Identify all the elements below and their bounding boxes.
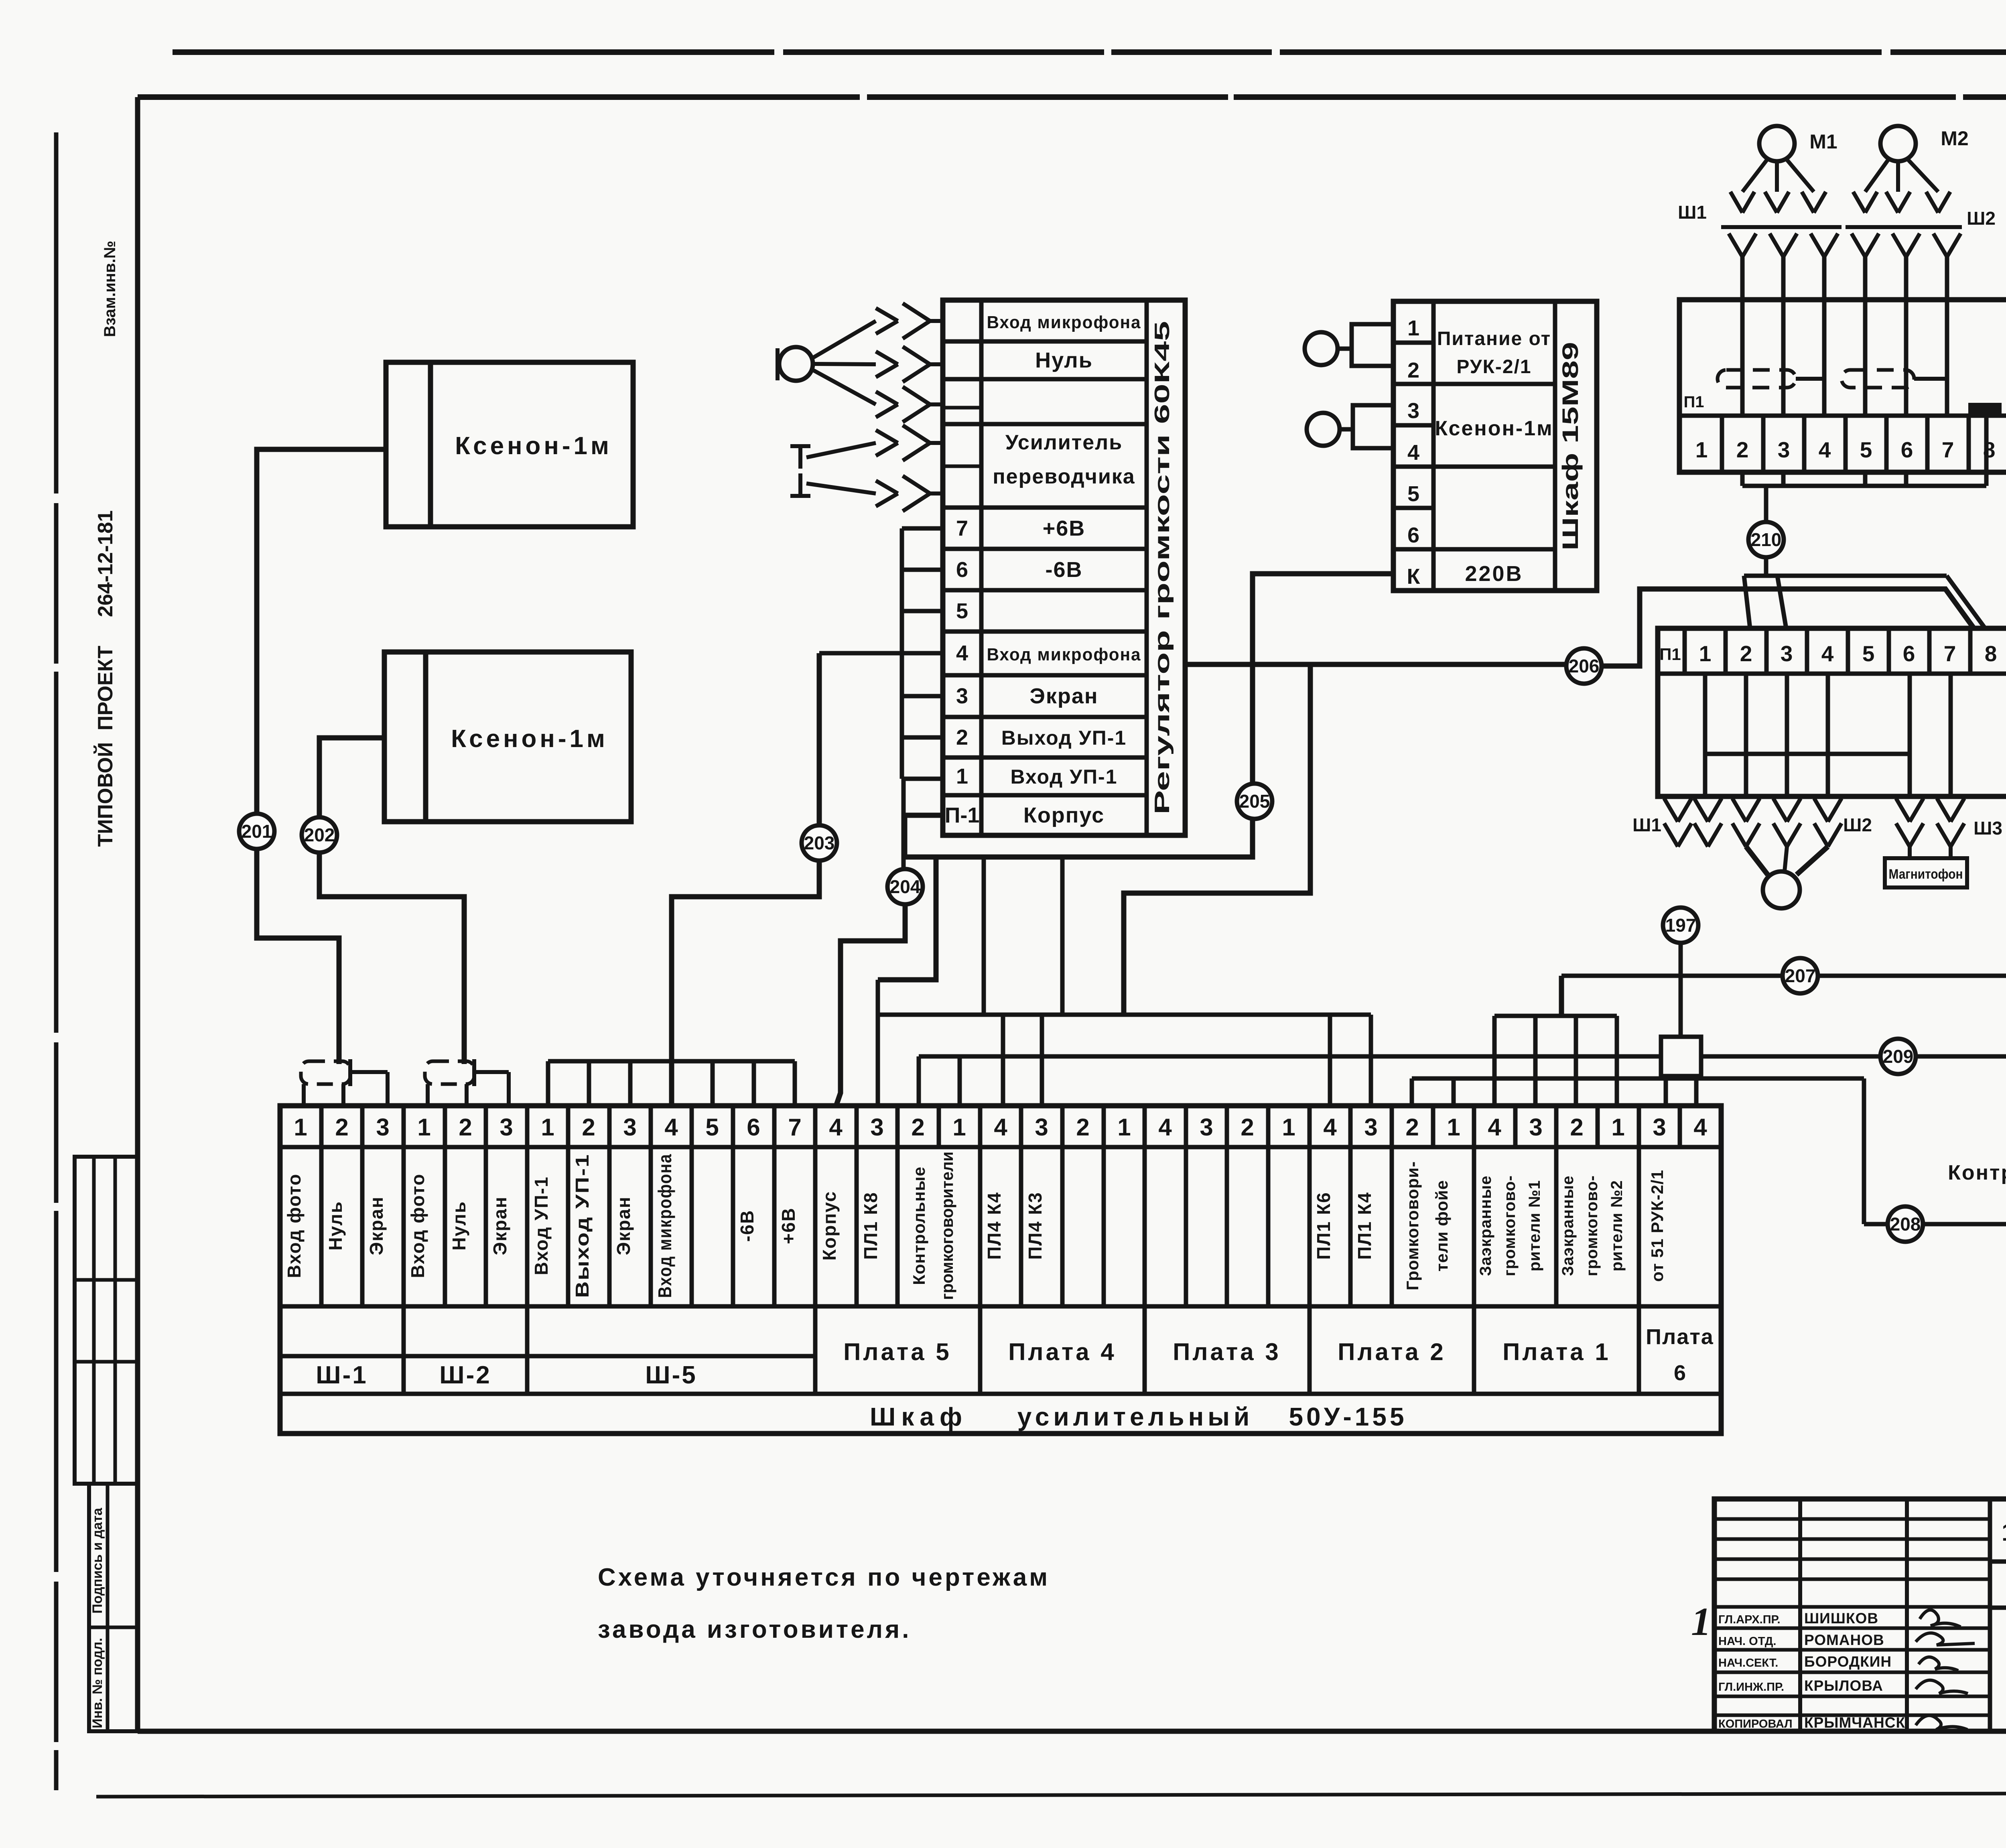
- svg-text:6: 6: [747, 1114, 760, 1141]
- title block project name: [1990, 1606, 2006, 1610]
- svg-text:1: 1: [541, 1114, 554, 1141]
- svg-text:3: 3: [1035, 1114, 1048, 1141]
- svg-text:3: 3: [956, 684, 968, 708]
- svg-text:2: 2: [1241, 1114, 1254, 1141]
- box Ксенон-1м #1: [386, 362, 633, 527]
- svg-text:Плата 5: Плата 5: [843, 1338, 951, 1365]
- wire 205: Корпус row to Шкаф 15М89 К row: [905, 574, 1393, 857]
- sheet outer left dashed edge: [54, 132, 59, 1790]
- cable marker circle 208: [1888, 1206, 1923, 1242]
- svg-text:П1: П1: [1659, 645, 1681, 664]
- svg-text:от 51 РУК-2/1: от 51 РУК-2/1: [1648, 1170, 1667, 1282]
- svg-text:3: 3: [1364, 1114, 1377, 1141]
- frame left line: [135, 97, 140, 1731]
- wire comb left of Регулятор rows 7..1: [900, 528, 904, 779]
- svg-text:1: 1: [1611, 1114, 1624, 1141]
- svg-text:НАЧ. ОТД.: НАЧ. ОТД.: [1718, 1635, 1776, 1648]
- svg-text:П1: П1: [1684, 393, 1704, 411]
- svg-text:Инв. № подл.: Инв. № подл.: [90, 1638, 105, 1728]
- svg-text:Вход УП-1: Вход УП-1: [1010, 766, 1117, 788]
- cable marker circle 210: [1748, 522, 1784, 557]
- title block signature grid: [1988, 1499, 1992, 1731]
- mic plugs and label Ш1: [1730, 192, 1742, 213]
- svg-text:громкогово-: громкогово-: [1501, 1175, 1519, 1276]
- svg-text:2: 2: [956, 725, 968, 749]
- svg-text:1: 1: [417, 1114, 430, 1141]
- svg-text:6: 6: [1903, 641, 1915, 666]
- svg-text:4: 4: [1693, 1114, 1707, 1141]
- svg-text:ШИШКОВ: ШИШКОВ: [1804, 1610, 1878, 1627]
- bus C (y2688) to 208: [1412, 1076, 1864, 1081]
- svg-text:ПЛ1 К6: ПЛ1 К6: [1313, 1192, 1334, 1259]
- svg-text:Ш3: Ш3: [1974, 818, 2002, 839]
- svg-text:БОРОДКИН: БОРОДКИН: [1804, 1653, 1892, 1670]
- svg-text:1: 1: [1691, 1599, 1711, 1644]
- bus A (y2529) linking plate pins: [878, 1013, 1371, 1017]
- svg-text:220В: 220В: [1465, 562, 1523, 586]
- wire 197 drop to junction box: [1679, 943, 1683, 1037]
- mic plugs and label Ш2: [1853, 192, 1865, 213]
- svg-text:2: 2: [1736, 437, 1749, 462]
- svg-text:2: 2: [1076, 1114, 1089, 1141]
- svg-text:Заэкранные: Заэкранные: [1559, 1176, 1577, 1276]
- svg-text:Заэкранные: Заэкранные: [1477, 1176, 1494, 1276]
- cable marker circle 205: [1237, 784, 1272, 819]
- svg-text:Плата 3: Плата 3: [1173, 1338, 1281, 1365]
- cable marker circle 203: [802, 825, 837, 861]
- svg-text:2: 2: [582, 1114, 595, 1141]
- svg-text:ПЛ4 К4: ПЛ4 К4: [984, 1192, 1005, 1259]
- svg-text:3: 3: [1407, 399, 1419, 423]
- svg-text:РУК-2/1: РУК-2/1: [1456, 356, 1531, 378]
- svg-text:Ксенон-1м: Ксенон-1м: [455, 432, 612, 460]
- svg-text:202: 202: [304, 824, 335, 845]
- cable marker circle 201: [239, 814, 274, 849]
- svg-text:Вход фото: Вход фото: [407, 1173, 428, 1278]
- svg-text:Вход микрофона: Вход микрофона: [987, 645, 1141, 664]
- svg-text:Усилитель: Усилитель: [1005, 431, 1123, 454]
- mic socket forks and leads into ВК-209 pins 2-7: [1729, 234, 1742, 257]
- lamp plug above Ш-1 pins 1-2: [301, 1061, 350, 1084]
- svg-text:К: К: [1407, 565, 1421, 589]
- indicator lamp 2 of Шкаф 15М89: [1307, 413, 1340, 446]
- box Коробка включения микрофонов ВК-209: [1679, 300, 2006, 472]
- svg-text:П-1: П-1: [945, 803, 980, 827]
- svg-text:205: 205: [1239, 791, 1270, 812]
- svg-text:Регулятор громкости 60К45: Регулятор громкости 60К45: [1151, 321, 1174, 814]
- svg-text:Шкаф: Шкаф: [870, 1402, 968, 1431]
- svg-text:Плата: Плата: [1646, 1325, 1714, 1349]
- svg-text:громкогово-: громкогово-: [1583, 1175, 1601, 1276]
- left margin stamp box (подпись и дата / инв № подл): [89, 1484, 138, 1731]
- cable sleeve symbol 1 inside ВК-209: [1718, 370, 1796, 388]
- svg-text:210: 210: [1751, 529, 1782, 550]
- svg-text:Ш-2: Ш-2: [439, 1361, 491, 1389]
- svg-text:ГЛ.ИНЖ.ПР.: ГЛ.ИНЖ.ПР.: [1718, 1681, 1784, 1694]
- svg-text:7: 7: [1944, 641, 1956, 666]
- svg-text:1: 1: [1699, 641, 1712, 666]
- svg-text:Питание от: Питание от: [1437, 328, 1551, 349]
- svg-text:7: 7: [788, 1114, 801, 1141]
- left margin mini table: [75, 1157, 138, 1484]
- svg-text:М1: М1: [1809, 130, 1837, 153]
- svg-text:6: 6: [956, 558, 968, 582]
- svg-text:3: 3: [1529, 1114, 1542, 1141]
- svg-text:4: 4: [1821, 641, 1834, 666]
- connectors below БК-179: Ш3 group to tape recorder: [1896, 798, 1910, 822]
- svg-text:207: 207: [1785, 965, 1816, 986]
- junction box above Плата 6: [1661, 1037, 1701, 1076]
- microphone (speaker person) symbol: [779, 347, 813, 381]
- svg-text:1: 1: [294, 1114, 307, 1141]
- svg-text:КРЫЛОВА: КРЫЛОВА: [1804, 1677, 1883, 1694]
- svg-text:Корпус: Корпус: [1023, 803, 1105, 827]
- svg-text:6: 6: [1901, 437, 1913, 462]
- wire bundle from 210 into БК-179 pins: [1744, 574, 1947, 578]
- svg-text:ПЛ4 К3: ПЛ4 К3: [1025, 1192, 1046, 1259]
- svg-text:+6В: +6В: [1043, 516, 1086, 540]
- svg-text:Вход УП-1: Вход УП-1: [531, 1176, 552, 1275]
- cable marker circle 197: [1663, 908, 1698, 943]
- svg-text:1: 1: [1117, 1114, 1131, 1141]
- svg-text:-6В: -6В: [1045, 558, 1082, 582]
- svg-text:НАЧ.СЕКТ.: НАЧ.СЕКТ.: [1718, 1657, 1778, 1669]
- svg-text:Выход УП-1: Выход УП-1: [572, 1153, 593, 1298]
- wire riser to Плата5 pin 3: [878, 857, 936, 980]
- svg-text:ГЛ.АРХ.ПР.: ГЛ.АРХ.ПР.: [1718, 1613, 1781, 1626]
- svg-text:3: 3: [1653, 1114, 1666, 1141]
- svg-text:Ксенон-1м: Ксенон-1м: [1435, 417, 1553, 440]
- svg-text:Ш-5: Ш-5: [645, 1361, 697, 1389]
- table Шкаф 15М89: [1393, 301, 1597, 591]
- microphone М1: [1759, 126, 1795, 161]
- svg-text:206: 206: [1569, 656, 1600, 676]
- svg-text:50У-155: 50У-155: [1289, 1402, 1407, 1431]
- svg-text:Ксенон-1м: Ксенон-1м: [451, 725, 608, 753]
- svg-text:2: 2: [335, 1114, 348, 1141]
- svg-text:264-12-181: 264-12-181: [94, 510, 117, 617]
- bracket above Плата 1 pins: [1494, 1014, 1617, 1018]
- БК-179 internal pin leads: [1703, 674, 1708, 796]
- svg-text:203: 203: [804, 833, 835, 853]
- box Коробка переходная БК-179: [1658, 628, 2006, 796]
- svg-text:7: 7: [956, 516, 968, 540]
- svg-text:5: 5: [956, 599, 968, 623]
- svg-text:Вход микрофона: Вход микрофона: [654, 1153, 675, 1298]
- microphone М2: [1880, 126, 1916, 161]
- indicator lamp 1 of Шкаф 15М89: [1305, 332, 1338, 365]
- svg-text:тели фойе: тели фойе: [1432, 1180, 1451, 1271]
- svg-text:Выход УП-1: Выход УП-1: [1001, 727, 1127, 749]
- svg-text:Плата 4: Плата 4: [1008, 1338, 1116, 1365]
- svg-text:рители №2: рители №2: [1608, 1180, 1626, 1271]
- svg-text:Ш1: Ш1: [1678, 202, 1707, 223]
- svg-text:2: 2: [1570, 1114, 1583, 1141]
- svg-text:1: 1: [956, 764, 968, 788]
- sheet outer dashed top edge: [173, 49, 2006, 55]
- svg-text:-6В: -6В: [737, 1210, 757, 1242]
- svg-text:рители №1: рители №1: [1526, 1180, 1543, 1271]
- svg-text:Нуль: Нуль: [449, 1201, 469, 1251]
- svg-text:усилительный: усилительный: [1017, 1402, 1254, 1431]
- svg-text:3: 3: [870, 1114, 883, 1141]
- svg-text:завода изготовителя.: завода изготовителя.: [598, 1616, 911, 1643]
- svg-text:Нуль: Нуль: [1035, 348, 1093, 372]
- svg-text:Экран: Экран: [1029, 684, 1098, 708]
- svg-text:М2: М2: [1941, 127, 1968, 150]
- svg-text:Плата 1: Плата 1: [1502, 1338, 1610, 1365]
- microphone circle under БК-179: [1763, 871, 1800, 908]
- svg-text:РОМАНОВ: РОМАНОВ: [1804, 1632, 1884, 1648]
- translator symbol: [798, 446, 802, 469]
- svg-text:Вход фото: Вход фото: [284, 1173, 305, 1278]
- svg-text:Ш1: Ш1: [1632, 814, 1661, 835]
- title block signature squiggles: [1920, 1610, 1961, 1627]
- svg-text:5: 5: [1862, 641, 1875, 666]
- amplifier cabinet table frame: [280, 1106, 1721, 1434]
- svg-text:Контрольные: Контрольные: [910, 1166, 928, 1285]
- svg-text:ПЛ1 К8: ПЛ1 К8: [860, 1192, 881, 1259]
- svg-text:4: 4: [1819, 437, 1831, 462]
- svg-text:Экран: Экран: [366, 1196, 387, 1255]
- svg-text:Экран: Экран: [489, 1196, 510, 1255]
- svg-text:1: 1: [1282, 1114, 1295, 1141]
- svg-text:Магнитофон: Магнитофон: [1889, 867, 1963, 882]
- svg-text:КРЫМЧАНСК: КРЫМЧАНСК: [1804, 1714, 1905, 1731]
- bracket under ВК-209 to 210: [1740, 472, 1745, 486]
- svg-text:Ш-1: Ш-1: [316, 1361, 367, 1389]
- connector sockets into Регулятор rows 1-3: [876, 308, 898, 321]
- svg-text:Экран: Экран: [613, 1196, 634, 1255]
- connector sockets into Регулятор translator rows: [876, 430, 898, 443]
- svg-text:4: 4: [994, 1114, 1007, 1141]
- lamp plug above Ш-2 pins 1-2: [425, 1061, 474, 1084]
- svg-text:Контрольные громкоговорители: Контрольные громкоговорители: [1948, 1161, 2006, 1184]
- svg-text:2: 2: [911, 1114, 924, 1141]
- svg-text:5: 5: [705, 1114, 719, 1141]
- svg-text:8: 8: [1985, 641, 1997, 666]
- title block frame: [1714, 1499, 2006, 1731]
- amplifier table section separators: [402, 1306, 406, 1394]
- svg-text:1978: 1978: [2002, 1519, 2006, 1546]
- wire 201: Ксенон #1 to Ш-1 plug: [257, 449, 386, 1064]
- wire 203 from Регулятор row 4 to Ш-5 pin 4: [819, 651, 902, 656]
- svg-text:7: 7: [1942, 437, 1954, 462]
- svg-text:Схема уточняется по чертежам: Схема уточняется по чертежам: [598, 1564, 1050, 1591]
- svg-text:Ш2: Ш2: [1843, 814, 1872, 835]
- box Ксенон-1м #2: [384, 652, 631, 822]
- wire 208: [1862, 1078, 1866, 1224]
- svg-text:Громкоговори-: Громкоговори-: [1403, 1161, 1422, 1290]
- frame top line: [138, 94, 2006, 100]
- comb above Ш-5 pins 1-7: [548, 1059, 795, 1064]
- svg-text:4: 4: [1407, 441, 1419, 465]
- wire riser x2648: [1060, 857, 1065, 1015]
- wire 209: [1701, 1054, 2006, 1059]
- svg-text:переводчика: переводчика: [993, 465, 1135, 488]
- connectors below БК-179: Ш2 group to microphone: [1732, 798, 1746, 822]
- svg-text:3: 3: [623, 1114, 636, 1141]
- svg-text:4: 4: [1488, 1114, 1501, 1141]
- svg-text:3: 3: [1200, 1114, 1213, 1141]
- cable marker circle 207: [1783, 958, 1818, 993]
- cable marker circle 209: [1880, 1039, 1916, 1074]
- svg-text:197: 197: [1665, 915, 1696, 936]
- terminator block at pin 8: [1970, 404, 2000, 415]
- svg-text:4: 4: [829, 1114, 843, 1141]
- amplifier table column separators: [319, 1106, 324, 1147]
- svg-text:ПЛ1 К4: ПЛ1 К4: [1354, 1192, 1375, 1259]
- svg-text:5: 5: [1860, 437, 1872, 462]
- svg-text:6: 6: [1674, 1361, 1686, 1385]
- svg-text:Ш2: Ш2: [1967, 208, 1996, 229]
- cable marker circle 202: [302, 817, 337, 853]
- svg-text:КОПИРОВАЛ: КОПИРОВАЛ: [1718, 1718, 1793, 1730]
- svg-text:Вход микрофона: Вход микрофона: [987, 313, 1141, 332]
- svg-text:201: 201: [242, 821, 272, 842]
- svg-text:2: 2: [1405, 1114, 1419, 1141]
- cable sleeve symbol 2 inside ВК-209: [1842, 370, 1914, 388]
- svg-text:209: 209: [1883, 1046, 1914, 1067]
- wire 202: Ксенон #2 to Ш-2 plug: [319, 738, 464, 1064]
- svg-text:1: 1: [1695, 437, 1708, 462]
- svg-text:Плата 2: Плата 2: [1338, 1338, 1446, 1365]
- svg-text:208: 208: [1890, 1214, 1921, 1235]
- svg-text:2: 2: [459, 1114, 472, 1141]
- wire 204 from comb to Плата 5 pin 4: [901, 779, 906, 869]
- svg-text:3: 3: [1781, 641, 1793, 666]
- svg-text:3: 3: [1778, 437, 1790, 462]
- cable marker circle 204: [887, 869, 923, 904]
- svg-text:Нуль: Нуль: [325, 1201, 346, 1251]
- svg-text:4: 4: [956, 641, 968, 665]
- svg-text:Корпус: Корпус: [819, 1191, 840, 1261]
- svg-text:+6В: +6В: [778, 1207, 799, 1244]
- svg-text:3: 3: [499, 1114, 513, 1141]
- svg-text:Взам.инв.№: Взам.инв.№: [101, 241, 119, 337]
- wire 206 to БК-179 pin 8: [1185, 662, 1567, 667]
- svg-text:5: 5: [1407, 482, 1419, 506]
- svg-text:4: 4: [664, 1114, 678, 1141]
- box Магнитофон: [1885, 858, 1967, 887]
- svg-text:Шкаф 15М89: Шкаф 15М89: [1557, 342, 1583, 550]
- svg-text:1: 1: [1447, 1114, 1460, 1141]
- svg-text:1: 1: [1407, 316, 1419, 340]
- svg-text:Подпись и дата: Подпись и дата: [90, 1507, 105, 1614]
- svg-text:3: 3: [376, 1114, 389, 1141]
- frame bottom line: [138, 1729, 2006, 1734]
- cable marker circle 206: [1566, 648, 1602, 684]
- wire 207 bus: [1559, 976, 1564, 1016]
- wire from 206 line down to bus A: [1124, 664, 1310, 1015]
- svg-text:2: 2: [1407, 358, 1419, 382]
- table Регулятор громкости 60К45: [943, 300, 1185, 835]
- svg-text:204: 204: [890, 876, 921, 897]
- bus B (y2633) to junction box and 209: [919, 1054, 1661, 1059]
- mic connector bars: [1721, 225, 1842, 229]
- svg-text:2: 2: [1740, 641, 1752, 666]
- svg-text:ТИПОВОЙ ПРОЕКТ: ТИПОВОЙ ПРОЕКТ: [93, 646, 117, 847]
- svg-text:1: 1: [952, 1114, 966, 1141]
- svg-text:громкоговорители: громкоговорители: [938, 1151, 956, 1300]
- wire riser x2452: [982, 857, 986, 1015]
- svg-text:4: 4: [1323, 1114, 1337, 1141]
- svg-text:6: 6: [1407, 523, 1419, 547]
- sheet outer bottom edge: [96, 1793, 2006, 1797]
- connectors below БК-179: Ш1 group: [1664, 798, 1678, 822]
- svg-text:4: 4: [1158, 1114, 1172, 1141]
